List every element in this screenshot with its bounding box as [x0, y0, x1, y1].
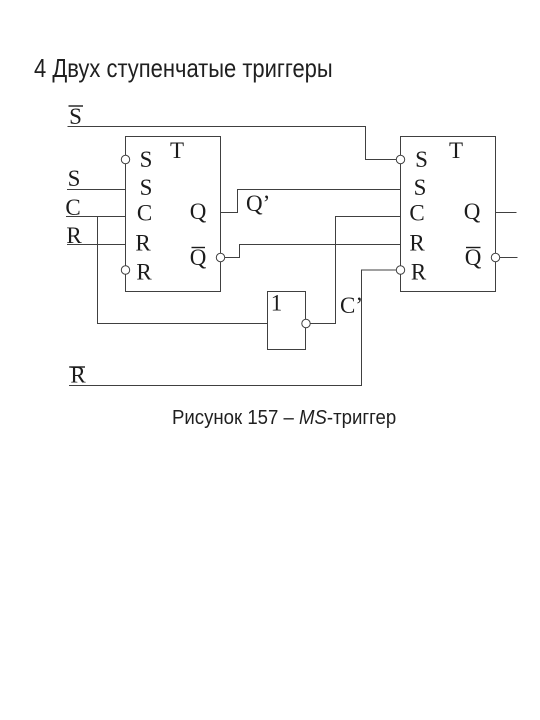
svg-text:R: R	[70, 363, 86, 388]
svg-text:Q’: Q’	[246, 191, 270, 216]
U1 pin label Q-bar (overline + Q)	[190, 245, 207, 270]
caption: figure title	[172, 407, 396, 430]
svg-text:Q: Q	[190, 245, 207, 270]
wire U2 Q output	[496, 212, 517, 214]
wire net S-bar: from label to U2 async S input	[68, 127, 396, 160]
wire Q' net: U1 Q output to U2 S input	[221, 190, 401, 213]
node label R-bar (overline + R)	[69, 363, 86, 388]
wire S input to U1	[67, 189, 126, 191]
svg-text:S: S	[140, 147, 153, 172]
svg-text:S: S	[68, 166, 81, 191]
svg-text:S: S	[415, 147, 428, 172]
wire C branch down to inverter U3 input	[98, 217, 268, 324]
bubble U1 async S input (unconnected)	[121, 155, 129, 163]
svg-text:R: R	[66, 223, 82, 248]
bubble U2 async S input	[396, 155, 404, 163]
svg-text:R: R	[135, 231, 151, 256]
U2 pin label Q-bar (overline + Q)	[465, 245, 482, 270]
node label S-bar (overline + S)	[69, 104, 84, 129]
svg-text:T: T	[449, 138, 463, 163]
svg-text:C: C	[65, 195, 80, 220]
wire net R-bar: from label to U2 async R input	[69, 270, 396, 386]
wire U2 Q-bar output	[500, 257, 517, 259]
svg-text:C: C	[137, 201, 152, 226]
svg-text:1: 1	[271, 291, 283, 316]
svg-text:Q: Q	[190, 199, 207, 224]
svg-text:S: S	[414, 175, 427, 200]
bubble U1 Q-bar output	[216, 253, 224, 261]
inverter U3 body	[268, 292, 306, 350]
bubble U2 async R input	[396, 266, 404, 274]
svg-text:C’: C’	[340, 293, 363, 318]
wire C input to U1	[66, 216, 126, 218]
wire R input to U1	[67, 244, 126, 246]
svg-text:C: C	[409, 201, 424, 226]
bubble U2 Q-bar output	[491, 253, 499, 261]
wire C' net: inverter U3 output to U2 C input	[311, 217, 401, 324]
trigger U2 body (slave T flip-flop)	[401, 137, 496, 292]
trigger U1 body (master T flip-flop)	[126, 137, 221, 292]
title: section heading	[34, 53, 333, 84]
svg-text:R: R	[136, 260, 152, 285]
svg-text:T: T	[170, 138, 184, 163]
bubble inverter U3 output	[302, 319, 310, 327]
bubble U1 async R input (unconnected)	[121, 266, 129, 274]
svg-text:S: S	[140, 175, 153, 200]
svg-text:Q: Q	[464, 199, 481, 224]
svg-text:R: R	[411, 260, 427, 285]
svg-text:S: S	[69, 104, 82, 129]
wire U1 Q-bar output to U2 R input	[225, 245, 400, 258]
svg-text:R: R	[409, 231, 425, 256]
svg-text:Q: Q	[465, 245, 482, 270]
